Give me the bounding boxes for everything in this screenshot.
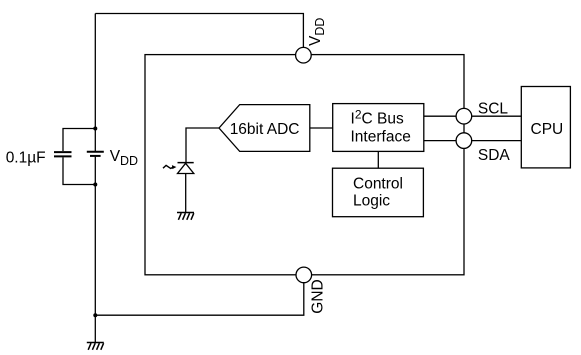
node VDD terminal circle (296, 47, 312, 63)
svg-text:CPU: CPU (531, 121, 564, 138)
wire SCL from I2C interface to CPU (424, 115, 522, 117)
wire ADC input from photodiode (186, 128, 219, 163)
IC block outline (145, 55, 464, 275)
node SDA terminal circle (456, 133, 472, 149)
node junction dot capacitor top (93, 127, 97, 131)
wire SDA from I2C interface to CPU (424, 140, 522, 142)
svg-text:Interface: Interface (351, 129, 411, 146)
I2C Bus Interface block (333, 104, 424, 152)
ground symbol below photodiode (177, 213, 194, 220)
svg-text:SDA: SDA (478, 147, 511, 164)
photodiode D1 (178, 163, 194, 174)
svg-text:Control: Control (353, 176, 403, 193)
photodiode light arrow (163, 165, 176, 169)
CPU block (521, 87, 570, 168)
wire left rail lower (94, 157, 96, 343)
Control Logic block (333, 168, 424, 217)
node junction dot GND rail (93, 313, 97, 317)
op-amp ADC pentagon 16bit ADC (219, 105, 310, 152)
svg-text:VDD: VDD (307, 18, 327, 46)
svg-text:VDD: VDD (110, 148, 138, 168)
node GND terminal circle (296, 267, 312, 283)
capacitor C1 branch wires (63, 129, 95, 152)
svg-text:Logic: Logic (353, 193, 390, 210)
svg-text:I2C Bus: I2C Bus (351, 108, 404, 128)
svg-text:0.1µF: 0.1µF (6, 149, 46, 166)
wire GND circle down and left to rail (95, 283, 303, 316)
capacitor C1 0.1uF plates (54, 152, 72, 156)
svg-text:16bit ADC: 16bit ADC (230, 121, 300, 138)
wire ADC output to I2C interface (310, 127, 333, 129)
node junction dot capacitor bottom (93, 183, 97, 187)
wire photodiode to ground (185, 174, 187, 213)
svg-text:GND: GND (310, 279, 327, 313)
wire I2C interface to control logic (377, 151, 379, 168)
wire VDD rail top horizontal (95, 14, 303, 48)
node SCL terminal circle (456, 108, 472, 124)
svg-text:SCL: SCL (478, 101, 509, 118)
wire left VDD rail upper (94, 14, 96, 152)
ground symbol bottom left (87, 343, 104, 350)
battery VDD source plates (87, 152, 104, 156)
